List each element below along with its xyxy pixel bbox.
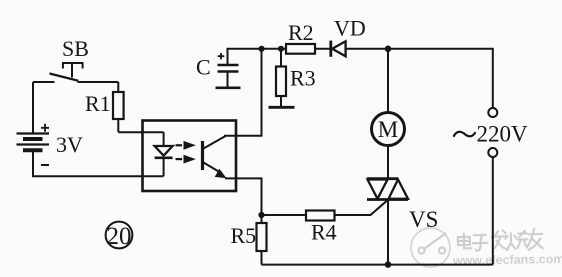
wire: triac to bottom rail	[387, 200, 389, 265]
wire: R5 node to triac gate	[262, 200, 389, 215]
optocoupler box U1	[143, 121, 237, 192]
wire: right rail lower	[492, 157, 494, 265]
resistor R4	[306, 211, 337, 245]
resistor R5	[231, 215, 267, 265]
capacitor C	[196, 53, 239, 87]
svg-text:R4: R4	[311, 220, 337, 245]
dashed light arrow 1	[176, 141, 196, 150]
pushbutton SB	[33, 36, 118, 82]
wire: battery + up to switch	[32, 82, 34, 134]
svg-text:M: M	[378, 117, 398, 142]
triac VS	[367, 179, 438, 232]
svg-text:R3: R3	[290, 66, 316, 91]
wire: battery - to LED cathode	[33, 150, 164, 176]
wire: motor branch upper	[387, 49, 389, 179]
wire: top rail	[228, 49, 493, 108]
resistor R2	[286, 20, 315, 54]
ground bar below R3	[269, 106, 295, 109]
svg-text:R1: R1	[85, 91, 111, 116]
svg-text:3V: 3V	[56, 132, 83, 157]
ground bar below C	[216, 87, 241, 90]
LED inside optocoupler	[155, 132, 173, 176]
terminal circle top	[488, 108, 497, 117]
svg-text:R5: R5	[231, 223, 257, 248]
wire: R1 to optocoupler LED anode	[118, 131, 163, 133]
svg-text:C: C	[196, 55, 211, 80]
junction node: emitter/R5/R4	[258, 212, 264, 218]
resistor R3	[276, 49, 316, 107]
svg-text:VS: VS	[409, 207, 438, 232]
junction node: motor branch	[385, 46, 392, 53]
figure number 20	[106, 222, 133, 250]
motor M	[372, 113, 405, 146]
svg-text:R2: R2	[288, 20, 314, 45]
resistor R1	[85, 82, 124, 132]
svg-text:SB: SB	[62, 36, 89, 61]
junction node: triac/bottom rail	[385, 261, 392, 268]
terminal circle bottom	[488, 148, 497, 157]
dashed light arrow 2	[176, 155, 196, 164]
battery 3V	[17, 124, 84, 165]
svg-text:VD: VD	[334, 16, 366, 41]
junction node: R2/R3	[278, 46, 284, 52]
wire: collector to top rail	[224, 49, 262, 136]
junction node: collector/top rail	[258, 46, 264, 52]
svg-text:220V: 220V	[477, 122, 529, 147]
wire: emitter to R5 node	[225, 178, 262, 215]
svg-text:20: 20	[107, 223, 132, 250]
phototransistor	[203, 136, 227, 178]
diode VD	[331, 16, 366, 57]
label ~220V	[454, 122, 529, 147]
wire: bottom rail	[262, 264, 493, 266]
